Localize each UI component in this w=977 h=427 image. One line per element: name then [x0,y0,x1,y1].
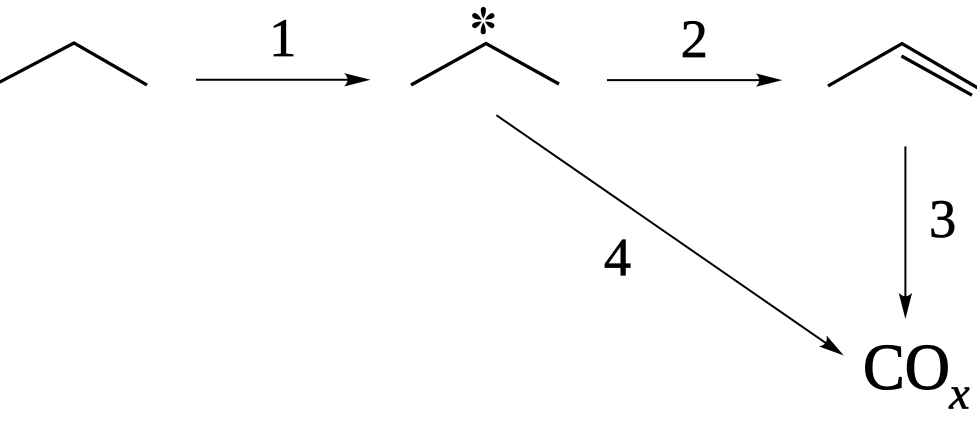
propene double bond inner line [902,56,973,95]
arrow 3 shaft (vertical) [904,146,906,302]
asterisk (active site marker) [471,7,495,34]
arrow 1 head [344,73,371,86]
propyl intermediate (middle zigzag) [411,44,559,86]
svg-text:CO: CO [863,331,950,404]
svg-text:4: 4 [604,227,631,288]
svg-text:x: x [948,368,970,419]
svg-text:3: 3 [929,188,956,249]
arrow 4 shaft (diagonal) [496,115,830,346]
arrow 2 shaft [607,79,764,81]
propene molecule (top right zigzag) [828,44,977,88]
arrow 3 head [899,293,912,319]
arrow 4 head [819,335,848,361]
svg-text:2: 2 [681,8,708,69]
propane molecule (top left zigzag) [0,43,147,85]
arrow 2 head [756,73,783,86]
arrow 1 shaft [196,79,352,81]
svg-text:1: 1 [269,7,296,68]
